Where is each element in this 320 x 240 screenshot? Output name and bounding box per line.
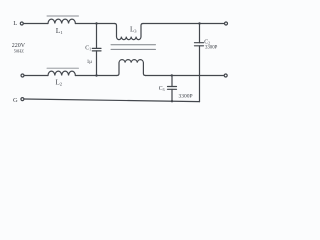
capacitor C3 branch wires (171, 76, 173, 87)
wire top lead (24, 23, 49, 25)
capacitor C1 plates (92, 47, 101, 49)
inductor L1 core bar (47, 15, 79, 17)
capacitor C1 branch wires (96, 23, 98, 48)
svg-text:3300P: 3300P (179, 94, 193, 100)
inductor L2 core bar (47, 67, 79, 69)
capacitor C2 plates (195, 42, 204, 44)
svg-text:L: L (13, 20, 17, 27)
node junction C3-top (171, 74, 173, 76)
choke L3 core lines (111, 44, 156, 46)
inductor L1 humps (48, 19, 75, 23)
terminal G (bottom-left) (21, 98, 24, 101)
svg-text:50HZ: 50HZ (14, 49, 24, 54)
svg-text:G: G (13, 97, 18, 104)
wire mid lead (24, 75, 48, 77)
terminal mid-right (224, 74, 227, 77)
ground wire (24, 99, 199, 102)
capacitor C2 branch wires (199, 24, 201, 43)
inductor L2 humps (48, 71, 75, 75)
terminal N (mid-left) (21, 74, 24, 77)
terminal top-right (225, 22, 228, 25)
svg-text:1μ: 1μ (87, 60, 93, 65)
capacitor C3 plates (168, 86, 177, 88)
node junction C2-top (198, 22, 200, 24)
choke L3 bottom winding (117, 60, 145, 76)
wire mid middle (75, 75, 117, 77)
choke L3 top winding (115, 24, 144, 40)
node junction C1-bottom (95, 74, 97, 76)
wire mid right (145, 75, 224, 77)
wire top right (143, 23, 225, 25)
wire top middle (75, 23, 114, 25)
svg-text:3300P: 3300P (205, 46, 218, 51)
node junction C3-ground (171, 100, 173, 102)
node junction C1-top (95, 22, 97, 24)
terminal L (top-left) (20, 22, 23, 25)
